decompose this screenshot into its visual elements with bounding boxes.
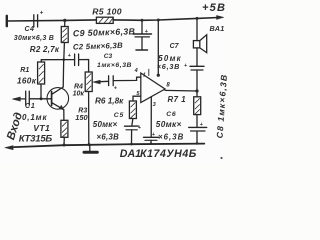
svg-text:R5 100: R5 100 [92,6,122,16]
resistor R7 [196,91,198,97]
node junctions bottom rail [63,144,66,147]
svg-text:КТ315Б: КТ315Б [19,133,53,144]
svg-text:30мк×6,3 В: 30мк×6,3 В [14,35,54,42]
svg-text:R6 1,8к: R6 1,8к [95,97,124,106]
svg-text:ВА1: ВА1 [210,24,225,33]
speaker BA1 [193,41,199,48]
wire speaker column [196,18,198,40]
svg-text:10к: 10к [73,90,85,97]
svg-text:R1: R1 [20,67,29,74]
node base junction [40,97,43,100]
terminal C4 input bar [6,16,8,26]
wire pin7 stub [148,69,150,75]
potentiometer R4 [85,72,92,92]
node R2 top [63,19,66,22]
svg-text:1мк×6,3В: 1мк×6,3В [97,62,132,69]
capacitor C9 [141,20,143,33]
capacitor C4 [33,15,35,27]
svg-text:С5: С5 [114,112,124,119]
wire bottom rail [14,144,204,148]
svg-text:С4: С4 [25,26,35,33]
svg-text:С1: С1 [25,103,36,110]
wire base VT1 [29,98,51,100]
capacitor C3 [108,76,110,86]
wiper R4 arrow [97,80,109,83]
op-amp DA1 triangle [141,73,165,103]
capacitor C10 pin3 [144,136,159,138]
svg-text:DA1: DA1 [120,148,141,160]
capacitor C2 [74,54,76,66]
svg-text:С6: С6 [166,111,176,118]
svg-text:С2 5мк×6,3В: С2 5мк×6,3В [73,41,123,52]
capacitor C7 [190,65,204,67]
svg-text:VT1: VT1 [33,123,50,133]
svg-text:+5В: +5В [202,2,226,14]
svg-text:С7: С7 [170,43,180,50]
svg-text:50мк×: 50мк× [156,120,182,129]
resistor R1 [40,60,42,62]
input terminal upper (arrow) [14,98,26,100]
svg-text:0,1мк: 0,1мк [22,113,47,122]
speck artifact [220,157,222,159]
node A junction [63,58,66,61]
wire pin5 stub [133,96,141,101]
svg-text:К174УН4Б: К174УН4Б [140,148,197,160]
wire output pin8 [165,89,197,92]
+5V terminal arrow [217,15,224,19]
svg-text:R2 2,7к: R2 2,7к [30,45,60,54]
wire top rail +5V [8,20,97,21]
capacitor C1 [25,91,27,105]
ground symbol [89,145,91,151]
svg-text:1: 1 [143,72,146,78]
svg-text:×6,3В: ×6,3В [157,62,180,71]
resistor R5 [96,17,113,23]
resistor R2 [64,20,66,26]
svg-text:50мк×: 50мк× [93,120,118,129]
svg-text:С3: С3 [104,53,113,60]
capacitor C5 [125,125,139,127]
svg-text:×6,3В: ×6,3В [97,132,120,141]
svg-text:160к: 160к [17,76,37,85]
capacitor C6 [189,126,207,128]
wire pin6 Vcc [157,20,159,75]
svg-text:×6,3В: ×6,3В [158,132,184,141]
wire pin3 ground [150,97,152,137]
svg-text:+: + [40,9,44,16]
wire node A horizontal [41,59,74,61]
svg-text:150: 150 [75,113,88,122]
resistor R3 [61,120,68,137]
input terminal lower (arrow) [5,146,13,150]
svg-text:R7 1: R7 1 [168,95,187,104]
resistor R6 [129,101,136,119]
transistor VT1 [47,88,69,110]
